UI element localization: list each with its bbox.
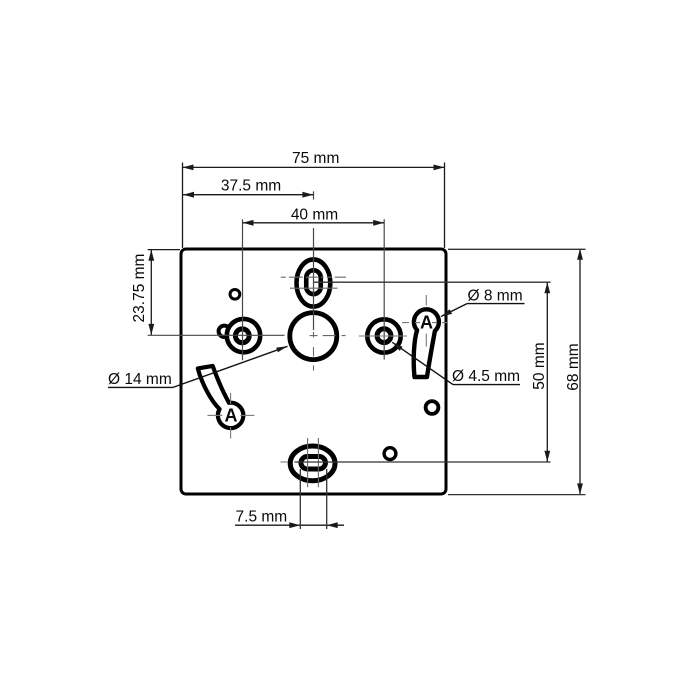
svg-text:68 mm: 68 mm [565, 343, 582, 390]
dimension 50 mm [295, 282, 551, 462]
keyhole slot A bottom-left [198, 366, 244, 428]
small hole bottom [384, 448, 396, 460]
centerline right circles horizontal [359, 335, 407, 337]
centerline left circles vertical / 40mm extension left [242, 219, 244, 360]
svg-text:50 mm: 50 mm [531, 342, 548, 389]
centerline left circles horizontal / 23.75mm extension [148, 334, 285, 336]
svg-text:Ø 8 mm: Ø 8 mm [468, 287, 523, 304]
dimension 40 mm [243, 222, 385, 224]
centerline slot A bottom-left horizontal [208, 414, 223, 416]
left inner hole Ø4.5 [235, 329, 249, 343]
plate outline [181, 249, 446, 494]
small hole top-left [230, 289, 240, 299]
left side lobe circle [219, 326, 230, 337]
svg-text:7.5 mm: 7.5 mm [236, 508, 288, 525]
label Ø 4.5 mm leader [392, 342, 520, 384]
centerline keyhole A right vertical [425, 295, 427, 306]
label Ø 8 mm leader [441, 304, 525, 317]
dimension 68 mm [448, 249, 586, 495]
centerline vertical main [313, 191, 315, 199]
dimension 75 mm [183, 163, 445, 249]
slot S1 top oval counterbore [297, 259, 331, 306]
svg-text:75 mm: 75 mm [292, 150, 339, 167]
left outer circle [227, 319, 260, 352]
right outer circle Ø8 [367, 319, 400, 352]
slot S1 top inner obround [306, 270, 321, 294]
svg-text:40 mm: 40 mm [291, 206, 338, 223]
centerline slot S2 horizontal dash [281, 461, 289, 463]
dimension 37.5 mm [183, 194, 313, 196]
keyhole slot A right [414, 309, 439, 377]
svg-text:23.75 mm: 23.75 mm [131, 254, 148, 323]
right inner hole Ø4.5 [377, 329, 391, 343]
small hole right Ø4.5 [426, 401, 439, 414]
slot S2 bottom inner obround [301, 457, 326, 470]
svg-text:Ø 4.5 mm: Ø 4.5 mm [452, 368, 520, 385]
label Ø 14 mm leader [108, 346, 288, 387]
centerline keyhole A right horizontal [402, 322, 448, 324]
centerline right circles vertical / 40mm extension right [383, 219, 385, 359]
svg-text:A: A [420, 313, 433, 333]
dimension 23.75 mm [148, 250, 180, 335]
centerline slot S2 verticals [307, 438, 309, 487]
centerline dash-dot top slot [281, 276, 346, 278]
slot S2 bottom oval counterbore [290, 446, 335, 481]
svg-text:A: A [225, 406, 238, 426]
centerline slot A bottom-left vertical [230, 393, 232, 404]
hole Ø14 center circle [290, 313, 337, 360]
dimension 7.5 mm [235, 469, 344, 529]
svg-text:Ø 14 mm: Ø 14 mm [108, 371, 172, 388]
tick line slot S1 arc center [290, 287, 338, 289]
svg-text:37.5 mm: 37.5 mm [221, 177, 281, 194]
